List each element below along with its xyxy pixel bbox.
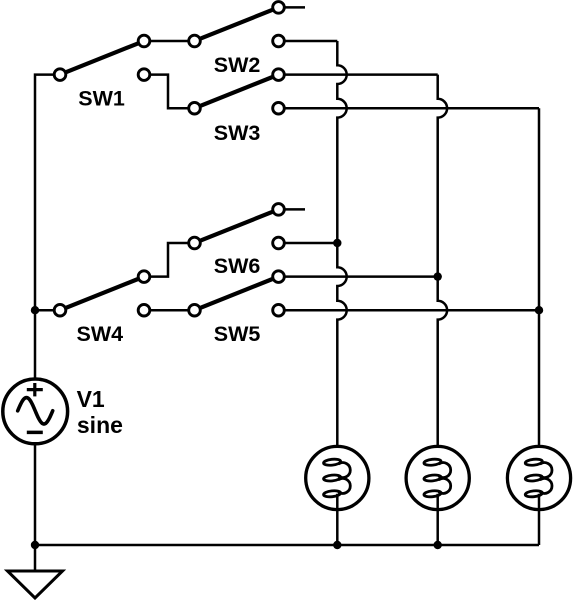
svg-text:SW2: SW2 <box>214 53 261 77</box>
svg-text:SW3: SW3 <box>214 121 261 145</box>
svg-text:V1: V1 <box>77 386 105 412</box>
svg-text:SW4: SW4 <box>77 322 124 346</box>
svg-text:sine: sine <box>77 412 123 438</box>
svg-text:SW6: SW6 <box>214 254 261 278</box>
svg-text:SW5: SW5 <box>214 322 261 346</box>
svg-text:SW1: SW1 <box>78 87 125 111</box>
